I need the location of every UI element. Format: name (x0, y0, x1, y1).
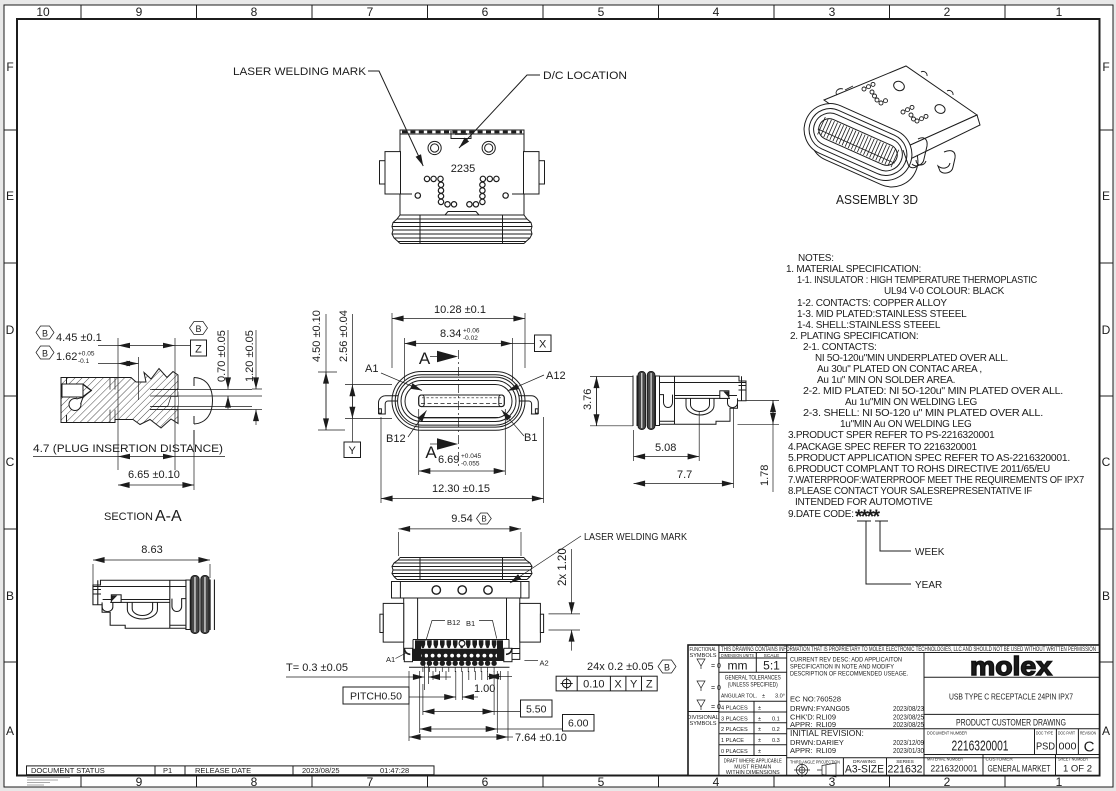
front shell rings (392, 372, 525, 431)
bottom row (983, 755, 1056, 776)
svg-text:2023/08/23: 2023/08/23 (893, 704, 924, 713)
svg-text:MATERIAL NUMBER: MATERIAL NUMBER (927, 757, 963, 763)
document number row (924, 754, 1100, 756)
svg-text:7.7: 7.7 (677, 469, 692, 481)
svg-text:7.64 ±0.10: 7.64 ±0.10 (515, 732, 567, 744)
labels A1 A2 bottom (386, 653, 549, 668)
dim 9.54 B (399, 513, 522, 556)
dim B 1.62 (36, 346, 139, 366)
svg-text:6.00: 6.00 (568, 718, 589, 730)
description cell (924, 713, 1100, 715)
dim 6.69 (419, 409, 506, 475)
svg-text:UL94 V-0 COLOUR: BLACK: UL94 V-0 COLOUR: BLACK (884, 286, 1005, 297)
svg-text:1.00: 1.00 (474, 683, 495, 695)
dim 1.00 (474, 677, 512, 696)
svg-text:±: ± (758, 706, 761, 712)
top face holes (892, 80, 906, 93)
svg-text:molex: molex (970, 651, 1053, 681)
svg-text:WITHIN DIMENSIONS: WITHIN DIMENSIONS (726, 770, 780, 776)
document status strip (27, 766, 435, 785)
svg-text:0.10: 0.10 (583, 679, 604, 691)
dim 7.64 (409, 732, 567, 744)
svg-text:4.45 ±0.1: 4.45 ±0.1 (56, 332, 102, 344)
svg-text:2216320001: 2216320001 (931, 764, 978, 775)
dim 6.65 (118, 469, 194, 485)
dim 0.70 vertical (216, 330, 262, 409)
svg-text:0.70 ±0.05: 0.70 ±0.05 (216, 330, 228, 382)
svg-text:2: 2 (944, 5, 951, 19)
top view side tab left (380, 152, 401, 194)
proprietary strip (718, 645, 720, 776)
svg-text:ANGULAR TOL.: ANGULAR TOL. (721, 694, 757, 700)
svg-text:PSD: PSD (1036, 741, 1055, 753)
svg-text:1.20 ±0.05: 1.20 ±0.05 (244, 330, 256, 382)
label A12 (508, 370, 566, 391)
svg-text:9.54: 9.54 (451, 513, 472, 525)
top view body (400, 130, 524, 215)
right view dims (582, 377, 779, 493)
svg-text:5.50: 5.50 (526, 704, 547, 716)
svg-text:C: C (1084, 739, 1095, 756)
zone numbers bottom (136, 775, 1063, 789)
svg-text:1 PLACE: 1 PLACE (721, 738, 744, 744)
svg-text:5: 5 (598, 5, 605, 19)
svg-text:YEAR: YEAR (915, 580, 942, 591)
svg-text:4 PLACES: 4 PLACES (721, 706, 748, 712)
top view weld dot pattern right (467, 176, 509, 207)
svg-text:Z: Z (195, 344, 202, 356)
svg-text:2. PLATING SPECIFICATION:: 2. PLATING SPECIFICATION: (790, 331, 918, 342)
svg-text:B: B (481, 515, 486, 524)
svg-text:DESCRIPTION OF RECOMMENDED USE: DESCRIPTION OF RECOMMENDED USEAGE. (790, 671, 908, 678)
notes text block (786, 253, 1085, 520)
svg-text:+0.06: +0.06 (463, 328, 480, 335)
svg-text:C: C (1102, 455, 1111, 469)
grid ticks top (81, 5, 1005, 19)
svg-text:1 OF 2: 1 OF 2 (1063, 764, 1092, 775)
svg-text:B: B (664, 663, 670, 673)
svg-text:SYMBOLS: SYMBOLS (689, 653, 716, 659)
svg-text:3.PRODUCT SPER REFER TO PS-221: 3.PRODUCT SPER REFER TO PS-2216320001 (788, 430, 995, 441)
svg-text:B1: B1 (524, 432, 537, 444)
svg-text:24x 0.2 ±0.05: 24x 0.2 ±0.05 (587, 661, 654, 673)
back rim (802, 102, 926, 195)
zone letters left (6, 60, 15, 738)
svg-text:F: F (1102, 60, 1109, 74)
solder legs right (912, 138, 927, 166)
svg-text:1.62: 1.62 (56, 351, 77, 363)
svg-text:Y: Y (349, 445, 357, 457)
dim B 4.45 (36, 326, 190, 348)
dim 12.30 (381, 417, 544, 503)
svg-text:B12: B12 (447, 618, 460, 627)
current rev column (923, 653, 925, 776)
svg-text:A12: A12 (546, 370, 566, 382)
bottom view body (380, 598, 544, 659)
title block (687, 645, 1099, 777)
zone numbers top (36, 5, 1062, 19)
svg-text:1-1. INSULATOR : HIGH TEMPERAT: 1-1. INSULATOR : HIGH TEMPERATURE THERMO… (797, 275, 1037, 286)
tolerance column (786, 645, 788, 776)
svg-text:A: A (425, 443, 437, 462)
svg-text:3.0°: 3.0° (775, 694, 785, 700)
svg-text:PITCH0.50: PITCH0.50 (350, 691, 402, 703)
svg-text:THIRD ANGLE PROJECTION: THIRD ANGLE PROJECTION (790, 760, 840, 766)
svg-text:3 PLACES: 3 PLACES (721, 716, 748, 722)
svg-text:±: ± (758, 738, 761, 744)
bottom view ring stack (392, 558, 532, 580)
dim 1.20 vertical (244, 330, 262, 425)
svg-text:A2: A2 (540, 659, 549, 668)
svg-text:±: ± (758, 716, 761, 722)
svg-text:2023/08/25: 2023/08/25 (302, 766, 340, 775)
svg-text:0.3: 0.3 (772, 738, 780, 744)
svg-text:4: 4 (713, 5, 720, 19)
svg-text:1: 1 (1056, 775, 1063, 789)
section plug outline (194, 378, 213, 446)
svg-text:2023/01/30: 2023/01/30 (893, 746, 924, 755)
svg-text:E: E (1102, 189, 1110, 203)
svg-text:SECTION: SECTION (104, 511, 153, 523)
dim 6.00 (420, 715, 594, 732)
svg-text:LASER WELDING MARK: LASER WELDING MARK (233, 66, 367, 78)
svg-text:1.78: 1.78 (759, 465, 771, 486)
svg-text:8.63: 8.63 (141, 544, 162, 556)
dim 4.50 vertical (311, 310, 345, 430)
svg-text:B12: B12 (386, 433, 406, 445)
svg-text:3.76: 3.76 (582, 389, 594, 410)
datum flag B hex above Z (190, 322, 208, 357)
svg-text:D: D (6, 323, 15, 337)
svg-text:2.56 ±0.04: 2.56 ±0.04 (338, 310, 350, 362)
svg-text:12.30 ±0.15: 12.30 ±0.15 (432, 483, 490, 495)
svg-text:****: **** (855, 507, 881, 528)
svg-text:EC NO:: EC NO: (790, 695, 816, 704)
section arrow A top (419, 349, 458, 368)
svg-text:-0.02: -0.02 (463, 335, 478, 342)
grid ticks left (4, 130, 17, 662)
svg-text:A3-SIZE: A3-SIZE (845, 764, 884, 776)
svg-text:5.PRODUCT APPLICATION SPEC REF: 5.PRODUCT APPLICATION SPEC REFER TO AS-2… (788, 453, 1070, 464)
svg-text:DOCUMENT STATUS: DOCUMENT STATUS (31, 766, 105, 775)
section outline details left (61, 378, 92, 423)
svg-text:+0.045: +0.045 (461, 453, 481, 460)
svg-text:D: D (1102, 323, 1111, 337)
svg-text:3: 3 (829, 5, 836, 19)
svg-text:CURRENT REV DESC: ADD APPLICAI: CURRENT REV DESC: ADD APPLICAITON (790, 657, 902, 664)
svg-text:2216320001: 2216320001 (952, 738, 1009, 755)
svg-text:WEEK: WEEK (915, 547, 945, 558)
svg-text:1-2. CONTACTS: COPPER ALLOY: 1-2. CONTACTS: COPPER ALLOY (797, 298, 947, 309)
svg-text:0.1: 0.1 (772, 716, 780, 722)
svg-text:F: F (6, 60, 13, 74)
svg-text:RELEASE DATE: RELEASE DATE (195, 766, 251, 775)
dim 2x 1.20 (549, 548, 581, 650)
svg-text:ASSEMBLY 3D: ASSEMBLY 3D (836, 192, 918, 207)
svg-text:8: 8 (251, 775, 258, 789)
section contact pins (150, 390, 252, 410)
svg-text:REVISION: REVISION (1080, 731, 1096, 737)
front face rings (796, 95, 920, 188)
svg-text:P1: P1 (163, 766, 172, 775)
svg-text:Z: Z (646, 679, 653, 691)
svg-text:A: A (419, 349, 431, 368)
svg-text:D/C LOCATION: D/C LOCATION (543, 70, 627, 82)
svg-text:6.69: 6.69 (438, 454, 459, 466)
grid ticks bottom (81, 776, 1005, 788)
svg-text:4.PACKAGE SPEC REFER TO 221632: 4.PACKAGE SPEC REFER TO 2216320001 (788, 442, 978, 453)
svg-text:2: 2 (944, 775, 951, 789)
svg-text:A: A (1102, 724, 1110, 738)
svg-text:B: B (6, 589, 14, 603)
dim 24x 0.2 B (587, 660, 676, 673)
svg-text:9: 9 (136, 5, 143, 19)
dim 2.56 vertical (338, 310, 392, 457)
svg-text:000: 000 (1059, 741, 1077, 753)
svg-text:4.7 (PLUG INSERTION DISTANCE): 4.7 (PLUG INSERTION DISTANCE) (33, 443, 223, 455)
svg-text:760528: 760528 (816, 695, 841, 704)
svg-text:GENERAL MARKET: GENERAL MARKET (988, 764, 1051, 775)
svg-text:2 PLACES: 2 PLACES (721, 727, 748, 733)
svg-text:1-4. SHELL:STAINLESS STEEEL: 1-4. SHELL:STAINLESS STEEEL (797, 320, 941, 331)
label A1 (365, 363, 422, 391)
assembly 3d view (796, 66, 980, 195)
svg-text:8.PLEASE CONTACT YOUR SALESREP: 8.PLEASE CONTACT YOUR SALESREPRESENTATIV… (788, 486, 1032, 497)
svg-text:6.PRODUCT COMPLANT TO ROHS DIR: 6.PRODUCT COMPLANT TO ROHS DIRECTIVE 201… (788, 464, 1050, 475)
dim 4.7 plug insertion (33, 443, 225, 459)
svg-text:C: C (6, 455, 15, 469)
svg-text:A1: A1 (386, 655, 395, 664)
svg-text:01:47:28: 01:47:28 (380, 766, 409, 775)
svg-text:6: 6 (482, 775, 489, 789)
svg-text:6: 6 (482, 5, 489, 19)
svg-text:6.65 ±0.10: 6.65 ±0.10 (128, 469, 180, 481)
svg-text:2-1. CONTACTS:: 2-1. CONTACTS: (803, 342, 877, 353)
section extension lines (118, 338, 194, 490)
svg-text:1: 1 (1056, 5, 1063, 19)
svg-text:+0.05: +0.05 (78, 351, 95, 358)
svg-text:2-3. SHELL: NI 5O-120 u" MIN P: 2-3. SHELL: NI 5O-120 u" MIN PLATED OVER… (803, 408, 1043, 419)
svg-text:DRWN:: DRWN: (790, 704, 815, 713)
section body hatched (61, 369, 252, 429)
svg-text:-0.055: -0.055 (461, 461, 480, 468)
svg-text:USB TYPE C RECEPTACLE 24PIN IP: USB TYPE C RECEPTACLE 24PIN IPX7 (949, 692, 1073, 702)
svg-text:1u"MIN Au ON WELDING LEG: 1u"MIN Au ON WELDING LEG (840, 419, 972, 430)
bottom laser welding mark label (510, 532, 687, 583)
svg-text:X: X (539, 339, 547, 351)
pin extension lines (409, 671, 508, 741)
svg-text:7.WATERPROOF:WATERPROOF MEET T: 7.WATERPROOF:WATERPROOF MEET THE REQUIRE… (788, 475, 1085, 486)
body right side (897, 115, 980, 164)
svg-text:5: 5 (598, 775, 605, 789)
svg-text:DOC TYPE: DOC TYPE (1036, 731, 1053, 737)
dim pitch 0.50 (343, 687, 478, 704)
zone letters right (1102, 60, 1111, 738)
svg-text:PRODUCT CUSTOMER DRAWING: PRODUCT CUSTOMER DRAWING (956, 718, 1066, 728)
svg-text:= 0: = 0 (711, 704, 721, 711)
dim 8.34 (405, 328, 552, 382)
svg-text:DOCUMENT NUMBER: DOCUMENT NUMBER (927, 731, 967, 737)
svg-text:-0.1: -0.1 (78, 358, 90, 365)
svg-text:0.2: 0.2 (772, 727, 780, 733)
svg-text:mm: mm (728, 659, 748, 673)
svg-text:DOC PART: DOC PART (1058, 731, 1075, 737)
svg-text:= 0: = 0 (711, 663, 721, 670)
bottom view pin comb (404, 640, 520, 673)
svg-text:2-2. MID PLATED: NI 5O-120u" M: 2-2. MID PLATED: NI 5O-120u" MIN PLATED … (803, 386, 1063, 397)
svg-text:9: 9 (136, 775, 143, 789)
svg-text:7: 7 (367, 775, 374, 789)
back edge notches (836, 71, 953, 95)
svg-text:(UNLESS SPECIFIED): (UNLESS SPECIFIED) (728, 683, 778, 689)
svg-text:NOTES:: NOTES: (798, 253, 834, 264)
svg-text:5.08: 5.08 (655, 442, 676, 454)
svg-text:Au 30u" PLATED ON CONTAC AREA: Au 30u" PLATED ON CONTAC AREA , (817, 364, 982, 375)
top face dot clusters (862, 82, 928, 123)
svg-text:B: B (195, 324, 201, 334)
top view screw holes (428, 141, 495, 154)
svg-text:4.50 ±0.10: 4.50 ±0.10 (311, 310, 323, 362)
svg-text:B1: B1 (466, 619, 475, 628)
svg-text:B: B (42, 329, 48, 339)
svg-text:±: ± (758, 727, 761, 733)
svg-text:= 0: = 0 (711, 685, 721, 692)
section arrow A bottom (425, 438, 458, 462)
front wing right (519, 396, 539, 414)
svg-text:8.34: 8.34 (440, 328, 461, 340)
svg-text:T= 0.3 ±0.05: T= 0.3 ±0.05 (286, 662, 348, 674)
front wing left (379, 396, 399, 414)
svg-text:CUSTOMER: CUSTOMER (986, 757, 1014, 763)
svg-text:10: 10 (36, 5, 50, 19)
svg-text:A1: A1 (365, 363, 378, 375)
feature control frame (556, 676, 657, 691)
dim 5.50 (423, 700, 552, 717)
svg-text:A-A: A-A (155, 508, 182, 525)
front centerline (457, 350, 459, 467)
top view weld dot pattern left (415, 176, 457, 207)
bottom view weld band with holes (392, 582, 530, 599)
svg-text:10.28 ±0.1: 10.28 ±0.1 (434, 304, 486, 316)
svg-text:2235: 2235 (451, 163, 475, 175)
svg-text:Y: Y (630, 679, 638, 691)
svg-text:0 PLACES: 0 PLACES (721, 749, 748, 755)
svg-text:FYANG05: FYANG05 (816, 704, 850, 713)
top view waterproof ring stack (392, 215, 532, 244)
molex logo cell (924, 676, 1100, 678)
front tongue (419, 395, 505, 417)
svg-text:±: ± (758, 749, 761, 755)
svg-text:SYMBOLS: SYMBOLS (689, 721, 716, 727)
svg-text:4: 4 (713, 775, 720, 789)
svg-text:221632: 221632 (888, 764, 923, 776)
fineprint (27, 778, 70, 786)
svg-text:5:1: 5:1 (763, 659, 780, 673)
svg-text:±: ± (762, 694, 765, 700)
svg-text:Au 1u"MIN ON WELDING LEG: Au 1u"MIN ON WELDING LEG (845, 397, 977, 408)
third angle projection cell (843, 758, 886, 776)
svg-text:GENERAL TOLERANCES: GENERAL TOLERANCES (725, 676, 781, 682)
svg-text:2023/08/25: 2023/08/25 (893, 720, 924, 729)
svg-text:X: X (614, 679, 622, 691)
svg-text:1-3. MID PLATED:STAINLESS STEE: 1-3. MID PLATED:STAINLESS STEEEL (797, 309, 967, 320)
dim 10.28 (392, 304, 525, 368)
svg-text:7: 7 (367, 5, 374, 19)
svg-text:B: B (42, 349, 48, 359)
top face (824, 66, 977, 151)
date code stars callout (855, 507, 945, 591)
svg-text:INITIAL REVISION:: INITIAL REVISION: (790, 728, 864, 738)
svg-text:RLI09: RLI09 (816, 746, 836, 755)
svg-text:SPECIFICATION IN NOTE AND MODI: SPECIFICATION IN NOTE AND MODIFY (790, 664, 895, 671)
labels B12 B1 bottom (426, 618, 497, 641)
svg-text:Au 1u" MIN ON SOLDER AREA.: Au 1u" MIN ON SOLDER AREA. (817, 375, 955, 386)
label B12 (386, 411, 427, 446)
grid ticks right (1100, 130, 1114, 662)
svg-text:A: A (6, 724, 14, 738)
svg-text:2x 1.20: 2x 1.20 (557, 548, 569, 586)
svg-text:B: B (1102, 589, 1110, 603)
top view side tab right (524, 152, 545, 194)
svg-text:LASER WELDING MARK: LASER WELDING MARK (584, 532, 687, 543)
dim T=0.3 (286, 650, 451, 690)
svg-text:NI 5O-120u"MIN UNDERPLATED OVE: NI 5O-120u"MIN UNDERPLATED OVER ALL. (815, 353, 1008, 364)
svg-text:E: E (6, 189, 14, 203)
svg-text:APPR:: APPR: (790, 746, 813, 755)
svg-text:8: 8 (251, 5, 258, 19)
label B1 (502, 410, 538, 444)
svg-text:1. MATERIAL SPECIFICATION:: 1. MATERIAL SPECIFICATION: (786, 264, 921, 275)
svg-text:SHEET NUMBER: SHEET NUMBER (1058, 757, 1088, 763)
svg-text:9.DATE CODE:: 9.DATE CODE: (788, 509, 854, 520)
